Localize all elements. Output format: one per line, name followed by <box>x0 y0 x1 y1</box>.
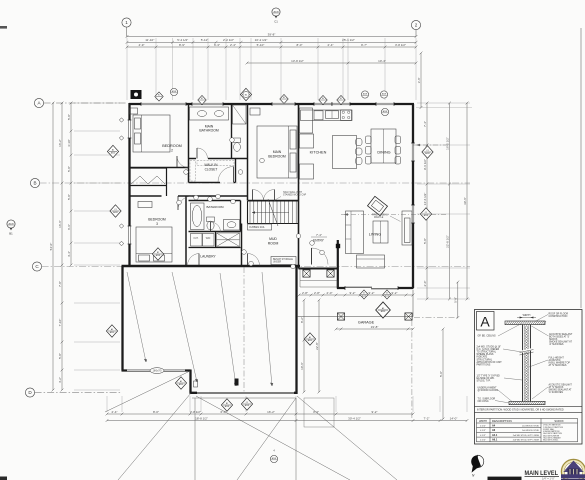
svg-text:9'-2": 9'-2" <box>372 410 378 414</box>
dimension line right bottom v <box>439 328 445 421</box>
svg-text:19'-8": 19'-8" <box>371 325 379 329</box>
svg-text:A208: A208 <box>382 93 386 96</box>
svg-text:DESCRIPTION: DESCRIPTION <box>492 419 512 423</box>
tag tag patio 1 <box>360 290 368 299</box>
svg-text:C1: C1 <box>425 212 427 214</box>
door bedroom1 <box>177 156 189 168</box>
svg-text:6'-3": 6'-3" <box>214 43 220 47</box>
tag tag garage left <box>106 325 117 337</box>
balloon driveway <box>270 455 277 462</box>
svg-text:BEDROOM: BEDROOM <box>268 155 286 159</box>
svg-text:B4: B4 <box>322 98 324 100</box>
wall main bedroom bottom <box>248 200 300 202</box>
door garage-mud <box>248 254 260 266</box>
top-right ext line <box>416 107 472 109</box>
svg-text:3'-8 1/2": 3'-8 1/2" <box>395 43 406 47</box>
pillow 4 <box>154 255 165 261</box>
dimension line porch right v <box>454 281 460 319</box>
garage door south <box>197 391 294 395</box>
svg-text:AT 'S' SUFFIX,: AT 'S' SUFFIX, <box>549 386 565 389</box>
svg-text:A3: A3 <box>382 307 384 310</box>
wall bedroom3 right <box>185 196 187 266</box>
svg-text:9'-7": 9'-7" <box>361 43 367 47</box>
svg-text:B5: B5 <box>340 98 342 100</box>
svg-text:A208: A208 <box>245 404 249 407</box>
svg-text:8'-2": 8'-2" <box>300 317 304 323</box>
svg-text:A300: A300 <box>179 383 183 386</box>
wall main bath right <box>231 104 233 159</box>
tag tag left mid <box>110 205 121 217</box>
half wall note <box>274 191 307 201</box>
svg-text:A208: A208 <box>113 211 117 214</box>
svg-text:A6.1: A6.1 <box>492 439 498 442</box>
dryer <box>203 234 215 247</box>
note gp bd <box>478 336 496 338</box>
svg-text:7'-10": 7'-10" <box>58 319 62 327</box>
svg-text:LIVING: LIVING <box>369 233 381 237</box>
svg-text:FUT.: FUT. <box>194 238 199 240</box>
svg-text:2x6 WD STUD, GYP 1 SIDE: 2x6 WD STUD, GYP 1 SIDE <box>513 440 540 442</box>
gridline C <box>42 266 470 268</box>
svg-text:A208: A208 <box>156 254 160 257</box>
tv cabinet <box>402 211 412 245</box>
pillow 3 <box>139 255 150 261</box>
svg-text:2'-0": 2'-0" <box>423 281 427 287</box>
tag tag bottom 1 <box>221 399 232 411</box>
svg-text:5'-0": 5'-0" <box>439 371 443 377</box>
vanity bath2 <box>224 220 240 231</box>
svg-text:ACOUSTIC: ACOUSTIC <box>549 359 561 362</box>
svg-text:ROOM: ROOM <box>268 242 279 246</box>
patio door living bottom <box>345 286 398 290</box>
svg-text:A208: A208 <box>273 10 279 13</box>
kitchen counter <box>301 110 353 121</box>
svg-text:4'-4": 4'-4" <box>67 251 71 257</box>
pillow 2 <box>135 133 141 144</box>
svg-text:22'-8": 22'-8" <box>315 342 319 350</box>
svg-text:25'-1 1/2": 25'-1 1/2" <box>342 38 355 42</box>
bottom left edge mark <box>0 477 7 480</box>
svg-text:8'-0": 8'-0" <box>153 410 159 414</box>
svg-text:5'-10": 5'-10" <box>257 43 265 47</box>
reference balloon A208-B1 left <box>7 220 15 236</box>
svg-text:5'-8": 5'-8" <box>67 194 71 200</box>
tag tag top 3 <box>280 94 288 103</box>
wall section detail <box>505 314 546 405</box>
window kitchen sink 1 <box>314 102 332 106</box>
svg-text:16/0x7/0: 16/0x7/0 <box>153 371 163 373</box>
svg-text:7'-4": 7'-4" <box>423 121 427 127</box>
svg-text:SUFFIX: SUFFIX <box>554 419 563 423</box>
left edge mark <box>0 26 7 29</box>
svg-text:GARAGE: GARAGE <box>358 321 375 325</box>
svg-text:STRUCTURAL: STRUCTURAL <box>477 358 493 361</box>
dimension line left row3 <box>67 102 73 267</box>
wall garage step <box>189 370 191 393</box>
svg-text:7'-8": 7'-8" <box>58 281 62 287</box>
svg-text:MAIN: MAIN <box>273 150 282 154</box>
svg-text:10'-2 1/2": 10'-2 1/2" <box>255 38 268 42</box>
svg-text:A300: A300 <box>381 310 385 313</box>
dimension line garage porch <box>335 325 415 331</box>
wall bedroom block left <box>128 103 130 266</box>
gridline 1 leader <box>126 27 128 36</box>
sofa <box>346 211 364 254</box>
svg-text:2'-4": 2'-4" <box>230 43 236 47</box>
svg-text:2'-8": 2'-8" <box>302 291 308 295</box>
svg-text:BATHROOM: BATHROOM <box>199 129 219 133</box>
tag tag rear porch <box>376 302 391 318</box>
wall garage right <box>295 266 297 394</box>
svg-text:4 1/2": 4 1/2" <box>480 440 486 442</box>
garage door west <box>127 369 185 373</box>
svg-text:14'-0": 14'-0" <box>450 416 458 420</box>
note subfloor <box>478 399 496 404</box>
porch column dash horizontal <box>414 316 459 318</box>
entry porch slab <box>300 269 337 288</box>
svg-text:5'-11": 5'-11" <box>201 38 208 42</box>
tag tag garage corner <box>175 377 186 389</box>
svg-text:4'-9": 4'-9" <box>139 43 145 47</box>
note gyp <box>477 376 501 383</box>
laundry door arc <box>188 254 200 266</box>
svg-text:18'-8 1/2": 18'-8 1/2" <box>195 416 208 420</box>
smoke detector <box>131 90 142 99</box>
svg-text:D1: D1 <box>363 293 365 295</box>
window main bedroom top <box>272 102 295 106</box>
svg-text:UNDER: UNDER <box>273 261 282 263</box>
wall mudroom left <box>241 224 243 266</box>
svg-text:1: 1 <box>125 20 128 25</box>
dresser main <box>250 108 260 115</box>
closet bifold doors <box>131 176 165 184</box>
svg-text:EA SIDE OF WD.: EA SIDE OF WD. <box>477 377 495 380</box>
dimension line right row1 <box>423 102 429 301</box>
wall laundry top <box>189 247 241 249</box>
svg-text:LAUNDRY: LAUNDRY <box>200 255 216 259</box>
table rows <box>480 424 539 441</box>
note underlayment <box>478 387 499 393</box>
wall bathroom2 box <box>189 201 241 232</box>
door bedroom3 <box>178 196 192 210</box>
svg-text:2x4 WD STUD, GYP 1 SIDE: 2x4 WD STUD, GYP 1 SIDE <box>513 435 540 437</box>
svg-text:4 1/2": 4 1/2" <box>480 425 486 427</box>
wall mudroom bottom / garage top <box>122 265 301 267</box>
pillow main 2 <box>290 153 296 172</box>
tag tag top kitchen1 <box>319 95 327 104</box>
svg-text:10'-6": 10'-6" <box>300 362 304 370</box>
main bedroom double doors <box>253 190 275 201</box>
svg-text:B2: B2 <box>226 403 228 405</box>
cubbies <box>248 224 272 230</box>
svg-text:39'-8": 39'-8" <box>268 32 276 36</box>
svg-text:5'-8": 5'-8" <box>58 353 62 359</box>
door number circles <box>177 138 325 269</box>
svg-text:5'-8": 5'-8" <box>454 297 458 303</box>
svg-text:B3: B3 <box>283 97 285 99</box>
svg-text:2'-4": 2'-4" <box>112 410 118 414</box>
nightstand bedroom1 <box>130 108 138 114</box>
svg-text:7'-2": 7'-2" <box>424 416 430 420</box>
detail marker A box <box>477 312 495 331</box>
svg-text:2: 2 <box>171 149 173 153</box>
window kitchen sink 2 <box>332 102 350 106</box>
svg-text:C1: C1 <box>274 20 278 24</box>
note studs <box>477 347 503 367</box>
window main bath top <box>192 102 223 106</box>
svg-text:A208: A208 <box>425 152 429 155</box>
svg-text:2x4 WOOD STUD: 2x4 WOOD STUD <box>522 425 539 427</box>
grid bubble 1 <box>122 18 131 27</box>
closet shelves <box>190 161 234 182</box>
driveway edges <box>192 398 296 480</box>
tag tag right 1 <box>422 146 433 158</box>
table header <box>479 419 564 423</box>
svg-text:7'-4": 7'-4" <box>316 233 322 237</box>
wall bedroom1 / bath divider <box>188 104 190 183</box>
svg-text:'A' SUFFIXES: 'A' SUFFIXES <box>549 343 564 346</box>
porch column dash vertical <box>411 320 413 418</box>
svg-text:4'-2": 4'-2" <box>58 377 62 383</box>
fireplace <box>368 196 388 215</box>
svg-text:9'-2": 9'-2" <box>350 291 356 295</box>
wall wd closet divider <box>215 232 217 248</box>
svg-text:A208: A208 <box>172 90 176 93</box>
svg-text:16'-2": 16'-2" <box>267 410 275 414</box>
coffee table <box>373 221 388 243</box>
wall bedroom1 closet <box>130 168 167 186</box>
svg-text:A208: A208 <box>225 405 229 408</box>
tag window tag bed1 left <box>107 145 118 157</box>
svg-text:SMOKE SEALANT AT: SMOKE SEALANT AT <box>549 341 573 344</box>
left extension lines <box>74 103 120 390</box>
range <box>341 110 352 120</box>
svg-text:5'-8": 5'-8" <box>67 166 71 172</box>
entry width dim <box>311 233 327 237</box>
svg-text:B1: B1 <box>9 232 13 236</box>
wic door arc <box>218 167 234 183</box>
dimension line top row4 <box>246 59 418 65</box>
right extension lines <box>417 103 470 299</box>
dimension line left overall <box>49 102 55 392</box>
svg-text:54'-0": 54'-0" <box>49 243 53 251</box>
dimension line top overall <box>126 32 418 38</box>
svg-text:2: 2 <box>415 23 418 28</box>
svg-text:6'-0": 6'-0" <box>221 410 227 414</box>
note full height <box>549 358 571 368</box>
wall stair left end <box>247 201 249 224</box>
window bedroom3 left <box>128 226 132 244</box>
reference balloon A208-C1 top <box>272 8 280 24</box>
dimension line porch v1 <box>300 299 306 394</box>
dimension line bottom row2 <box>106 416 469 422</box>
dining table <box>371 129 396 163</box>
svg-text:BATHROOM: BATHROOM <box>206 205 224 209</box>
vanity main bath <box>190 107 229 120</box>
svg-text:B2: B2 <box>201 98 203 100</box>
wall kitchen-stair wall <box>298 104 300 269</box>
svg-text:ACOUSTIC SEALANT: ACOUSTIC SEALANT <box>549 333 573 336</box>
gridline B <box>40 182 470 184</box>
kitchen island <box>333 136 357 169</box>
grid bubble 2 <box>411 20 420 29</box>
dimension line top row2 <box>126 38 418 44</box>
tag tag patio 2 <box>383 290 391 299</box>
note acoustic bottom <box>549 384 573 395</box>
svg-text:CUBBIES RAIL: CUBBIES RAIL <box>249 226 266 229</box>
svg-text:BEDROOM: BEDROOM <box>148 218 166 222</box>
svg-text:WIDTH: WIDTH <box>479 420 487 423</box>
panel divider 1 <box>475 406 583 408</box>
svg-text:9'-6 1/2": 9'-6 1/2" <box>423 159 427 170</box>
svg-text:C1: C1 <box>426 150 428 152</box>
svg-text:16'-6": 16'-6" <box>58 220 62 228</box>
wall stair top <box>248 200 299 202</box>
tag tag top kitchen2 <box>337 95 345 104</box>
svg-text:A208: A208 <box>424 214 428 217</box>
svg-text:'A' SUFFIXES: 'A' SUFFIXES <box>549 391 564 394</box>
svg-text:9'-2": 9'-2" <box>369 291 375 295</box>
sectional return <box>357 255 385 268</box>
wall garage bottom west segment <box>122 369 191 371</box>
dash pointer window right 1 <box>413 144 448 146</box>
wall stair half wall <box>248 223 299 225</box>
svg-text:B2: B2 <box>157 252 159 254</box>
svg-text:5'-4 1/2": 5'-4 1/2" <box>177 38 188 42</box>
svg-text:9'-2": 9'-2" <box>392 291 398 295</box>
svg-text:OR CONC.: OR CONC. <box>478 401 490 403</box>
svg-text:8'-9": 8'-9" <box>179 43 185 47</box>
fridge <box>300 134 314 148</box>
svg-text:GP. BD. CEILING: GP. BD. CEILING <box>478 336 496 338</box>
tag circle-diamond top <box>240 88 251 100</box>
svg-text:ACOUSTIC SEALANT: ACOUSTIC SEALANT <box>549 384 573 387</box>
svg-text:A300: A300 <box>110 331 114 334</box>
svg-text:C2: C2 <box>246 402 248 404</box>
wall exterior right <box>412 104 414 288</box>
bed bedroom3 <box>136 227 172 262</box>
svg-text:A300: A300 <box>308 339 312 342</box>
dimension line right row2 <box>445 102 451 301</box>
svg-text:TO STRUCTURAL: TO STRUCTURAL <box>477 351 497 354</box>
partition table <box>477 419 578 442</box>
suffix legend <box>543 424 564 442</box>
door bathroom2 <box>211 222 221 232</box>
svg-text:13'-8 1/2": 13'-8 1/2" <box>291 59 304 63</box>
svg-text:4 1/2": 4 1/2" <box>480 435 486 437</box>
wall exterior top <box>129 103 414 105</box>
svg-text:22'-8 1/2": 22'-8 1/2" <box>445 235 449 248</box>
sheet edge line <box>580 28 582 308</box>
pantry <box>300 164 314 179</box>
detail panel border <box>475 310 583 445</box>
tag tag top 1 <box>155 92 163 101</box>
gridline 2 leader <box>415 30 417 37</box>
window dining right <box>411 143 415 161</box>
tub bath2 <box>191 203 205 230</box>
panel divider 2 <box>475 411 583 413</box>
svg-text:SMOKE SEALANT AT: SMOKE SEALANT AT <box>549 389 573 392</box>
wall living bottom <box>337 287 414 289</box>
svg-text:A2: A2 <box>180 380 182 383</box>
bench <box>271 257 296 265</box>
svg-text:16'-2 1/2": 16'-2 1/2" <box>445 137 449 150</box>
pillow main 1 <box>290 130 296 149</box>
rear porch columns <box>337 313 344 320</box>
svg-text:BEDROOM: BEDROOM <box>162 144 182 148</box>
driveway diagonals <box>105 371 397 480</box>
wall closet right <box>235 159 237 183</box>
grid bubble B <box>30 178 39 187</box>
svg-text:CLOSET: CLOSET <box>205 168 218 172</box>
svg-text:B: B <box>33 181 36 186</box>
svg-text:6'-6": 6'-6" <box>67 224 71 230</box>
svg-text:INTERIOR PARTITION: WOOD STUD: INTERIOR PARTITION: WOOD STUD / NONRATED… <box>477 409 564 412</box>
svg-text:30'-4 1/2": 30'-4 1/2" <box>348 416 361 420</box>
svg-text:2'-8": 2'-8" <box>314 291 320 295</box>
window bedroom1 top <box>141 102 186 106</box>
svg-text:39'-6": 39'-6" <box>463 197 467 205</box>
tag tag top 2 <box>198 95 206 104</box>
svg-text:D2: D2 <box>386 293 388 295</box>
dash pointer window right 2 <box>341 213 446 215</box>
tag tag bedroom3 <box>152 248 163 260</box>
bed bedroom1 <box>133 115 170 152</box>
svg-text:C1: C1 <box>114 209 116 211</box>
svg-text:BENCH STORAGE: BENCH STORAGE <box>273 258 293 261</box>
dimension line bottom row1 <box>106 410 415 416</box>
balloon top k1 <box>361 91 368 98</box>
svg-text:A1: A1 <box>309 336 311 339</box>
svg-text:A1: A1 <box>112 149 114 152</box>
gridline D <box>35 392 122 394</box>
stairs <box>250 199 296 226</box>
svg-text:A3: A3 <box>111 328 113 331</box>
dimension line porch v2 <box>315 299 321 394</box>
wall entry bottom <box>299 268 339 270</box>
svg-text:3: 3 <box>156 222 158 226</box>
svg-text:4'-10": 4'-10" <box>67 139 71 147</box>
tag tag bottom 2 <box>241 398 252 410</box>
gridline A <box>44 102 126 104</box>
svg-text:A208: A208 <box>272 457 276 460</box>
island stools <box>356 139 363 165</box>
wall garage left <box>121 266 123 371</box>
rear porch line <box>297 290 413 317</box>
wall hall top <box>189 158 248 160</box>
wall bedroom1 bottom <box>130 167 189 169</box>
svg-text:2'-8 1/2": 2'-8 1/2" <box>190 410 201 414</box>
firm logo <box>561 459 585 480</box>
window living right <box>411 205 415 223</box>
grid bubble C <box>32 262 41 271</box>
pillow 1 <box>135 118 141 129</box>
svg-text:MANTLE: MANTLE <box>374 216 384 219</box>
garage centerline <box>243 267 245 392</box>
wall entry right <box>337 240 339 289</box>
tv <box>405 218 411 243</box>
svg-text:10'-4": 10'-4" <box>378 59 386 63</box>
svg-text:INDICATE: INDICATE <box>477 356 488 359</box>
svg-text:APPLICATION OF UNIT: APPLICATION OF UNIT <box>477 361 503 364</box>
svg-text:DINING: DINING <box>377 151 390 155</box>
svg-text:@ WOOD FLOORS: @ WOOD FLOORS <box>478 390 499 392</box>
toilet bath2 <box>207 217 215 230</box>
wall hall closet wall <box>166 186 168 197</box>
svg-text:BOTH SIDES AT 'S': BOTH SIDES AT 'S' <box>549 336 570 339</box>
svg-text:1/4" = 1'-0": 1/4" = 1'-0" <box>542 476 555 480</box>
kitchen counter west leg <box>300 108 313 133</box>
